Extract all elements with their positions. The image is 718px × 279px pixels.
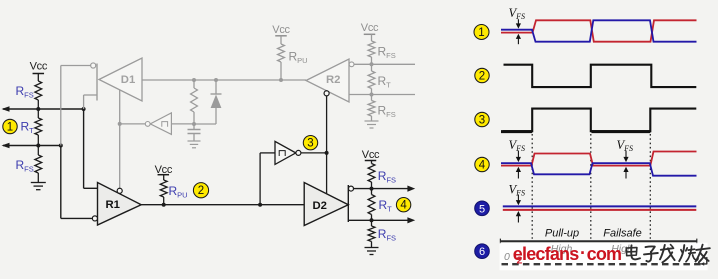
svg-text:2: 2 — [198, 185, 204, 197]
svg-text:1: 1 — [7, 122, 13, 134]
svg-text:Vcc: Vcc — [362, 149, 380, 161]
svg-text:3: 3 — [479, 115, 485, 127]
svg-text:elecfans·com: elecfans·com — [513, 243, 621, 264]
svg-text:4: 4 — [479, 160, 486, 172]
svg-text:D2: D2 — [313, 200, 327, 212]
svg-text:2: 2 — [479, 71, 485, 83]
svg-text:R2: R2 — [326, 74, 340, 86]
svg-text:Failsafe: Failsafe — [603, 228, 642, 240]
svg-text:6: 6 — [479, 246, 485, 258]
svg-text:2: 2 — [517, 255, 523, 267]
svg-text:Vcc: Vcc — [272, 24, 290, 36]
svg-text:1: 1 — [478, 27, 484, 39]
svg-text:Vcc: Vcc — [361, 22, 379, 34]
svg-text:3: 3 — [307, 138, 313, 150]
svg-text:5: 5 — [479, 203, 485, 215]
svg-text:0: 0 — [504, 251, 510, 263]
svg-text:D1: D1 — [121, 74, 135, 86]
svg-text:Pull-up: Pull-up — [545, 228, 579, 240]
svg-text:R1: R1 — [106, 199, 120, 211]
svg-text:4: 4 — [400, 200, 407, 212]
svg-text:Vcc: Vcc — [30, 61, 48, 73]
